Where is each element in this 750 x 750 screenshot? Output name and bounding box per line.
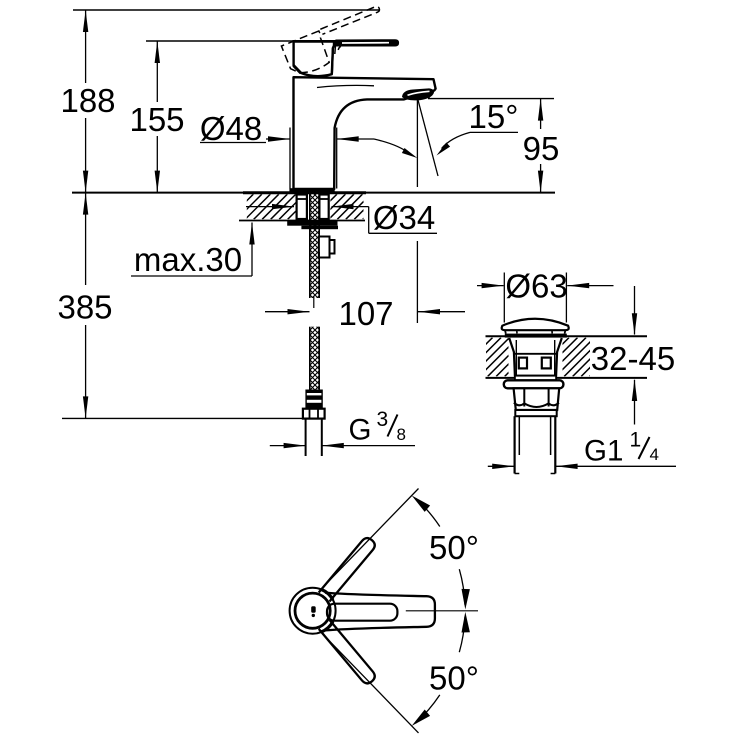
- aerator outlet: [403, 89, 434, 100]
- dimension 95 vertical line: [538, 99, 543, 193]
- dimension 385 vertical line: [83, 193, 88, 419]
- label 385: [57, 289, 112, 326]
- svg-text:95: 95: [523, 130, 560, 167]
- top view lever outline: [325, 593, 435, 631]
- cartridge housing: [294, 41, 334, 76]
- ray at 50° up: [326, 489, 419, 585]
- svg-text:G: G: [349, 414, 372, 447]
- dimension 155 vertical line: [155, 41, 160, 193]
- dimension 107 arrows: [265, 309, 465, 314]
- mounting washer left: [297, 195, 307, 220]
- lever silhouette rotated 50° down: [319, 620, 377, 686]
- counter hatch right of valve: [522, 338, 637, 377]
- label G1 1/4: [584, 429, 659, 468]
- faucet base plate: [289, 188, 334, 193]
- top view pivot inner circle: [295, 593, 330, 628]
- housing bottom-left chamfer: [294, 66, 301, 73]
- svg-text:G1: G1: [584, 435, 623, 468]
- raised lever (dashed outline): [281, 6, 392, 79]
- svg-text:max.30: max.30: [134, 241, 242, 278]
- braided hose upper part: [310, 252, 319, 298]
- label Ø48 with underline: [200, 110, 266, 147]
- hose nut G3/8: [303, 409, 325, 419]
- lever silhouette rotated 50° up: [319, 536, 377, 602]
- dimension Ø48 extension lines: [290, 128, 337, 189]
- label Ø34 leader and underline: [369, 196, 437, 236]
- threaded shank cross-section (hatched): [310, 193, 319, 252]
- hose break centerline: [313, 296, 315, 308]
- dimension Ø34 arrows: [246, 204, 369, 209]
- valve hex nut: [514, 388, 560, 410]
- deck inner highlight curve: [317, 85, 374, 87]
- dimension G3/8 arrows: [270, 443, 415, 448]
- svg-text:188: 188: [60, 82, 115, 119]
- dimension Ø63 extension lines: [504, 273, 566, 323]
- dimension G1 1/4 arrows: [488, 464, 676, 469]
- pivot ring merge shading: [321, 589, 333, 632]
- valve tail pipe G1 1/4: [515, 416, 556, 473]
- svg-text:Ø63: Ø63: [505, 268, 567, 305]
- reference line: counter underside: [239, 220, 365, 222]
- svg-text:107: 107: [338, 295, 393, 332]
- valve neck to flange: [515, 376, 556, 381]
- svg-text:Ø48: Ø48: [200, 110, 262, 147]
- svg-text:50°: 50°: [429, 660, 479, 697]
- hose compression fitting: [305, 390, 322, 409]
- label 95: [523, 130, 560, 167]
- label G 3/8: [349, 408, 406, 447]
- dimension 32-45 arrows: [632, 286, 637, 425]
- spout tip inner line: [427, 92, 429, 98]
- label 15° with underline: [469, 98, 519, 135]
- svg-text:155: 155: [129, 101, 184, 138]
- reference line: spout outlet (95 datum): [428, 98, 554, 100]
- top view axis line: [406, 610, 478, 612]
- top view logo mark: [311, 606, 316, 617]
- label 107: [338, 295, 393, 332]
- reference line: counter top: [72, 192, 555, 194]
- svg-text:4: 4: [650, 445, 659, 464]
- leader arc from Ø48 line to spout axis: [374, 139, 417, 158]
- lever handle (solid, horizontal): [292, 40, 398, 48]
- leader from 15° to water stream line: [437, 132, 471, 155]
- supply nipple: [319, 237, 335, 258]
- reference line: top of lever (155 datum): [146, 40, 340, 42]
- svg-text:3: 3: [377, 408, 389, 431]
- faucet body (column, deck and spout): [294, 77, 436, 189]
- counter cross-section hatch right of faucet: [303, 194, 396, 219]
- svg-text:1: 1: [630, 429, 642, 452]
- braided hose lower part: [310, 327, 319, 390]
- svg-text:385: 385: [57, 289, 112, 326]
- valve flange: [504, 380, 564, 388]
- label max.30: [134, 241, 242, 278]
- angle arc upper (50°): [412, 496, 470, 610]
- svg-text:8: 8: [397, 425, 406, 444]
- escutcheon flange under counter: [287, 221, 338, 229]
- reference line: hose end (385 datum): [62, 417, 306, 419]
- hose tail tube: [306, 420, 322, 457]
- label 188: [60, 82, 115, 119]
- label Ø63: [505, 268, 567, 305]
- dimension max.30 leader and arrow: [131, 223, 255, 277]
- valve cap (push dome): [502, 319, 569, 338]
- label 32-45: [591, 340, 675, 377]
- valve adapter ring: [515, 410, 556, 416]
- counter cross-section lines (valve figure): [486, 336, 648, 378]
- counter hatch left of valve: [445, 338, 552, 377]
- dimension Ø63 arrows: [477, 283, 614, 288]
- svg-text:15°: 15°: [469, 98, 519, 135]
- counter cross-section hatch left of faucet: [220, 194, 322, 219]
- dimension 188 vertical line: [83, 10, 88, 193]
- top view pivot outer circle: [290, 588, 336, 634]
- spout axis vertical line: [416, 100, 418, 323]
- svg-text:50°: 50°: [429, 529, 479, 566]
- label 50° lower: [429, 660, 479, 697]
- water stream line at 15°: [418, 100, 438, 176]
- dimension Ø48 arrows: [266, 136, 374, 141]
- valve body through counter: [509, 338, 562, 376]
- top view lever slot: [327, 604, 397, 621]
- label 50° upper: [429, 529, 479, 566]
- svg-text:Ø34: Ø34: [373, 199, 435, 236]
- ray at 50° down: [326, 637, 419, 733]
- reference line: top of raised lever (188 datum): [73, 9, 379, 11]
- mounting washer right: [319, 195, 328, 220]
- svg-text:32-45: 32-45: [591, 340, 675, 377]
- angle arc lower (50°): [412, 612, 470, 726]
- housing right edge detail: [332, 46, 341, 74]
- label 155: [129, 101, 184, 138]
